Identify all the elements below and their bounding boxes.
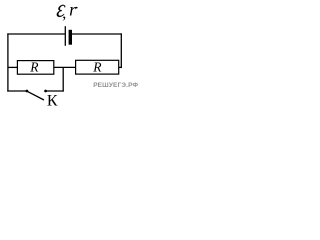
svg-text:r: r bbox=[69, 0, 77, 19]
svg-text:К: К bbox=[47, 93, 58, 110]
switch K left contact dot bbox=[26, 90, 29, 93]
battery G1 thin plate bbox=[64, 26, 66, 46]
battery G1 thick plate bbox=[69, 30, 72, 45]
wire left rail bbox=[7, 33, 9, 91]
svg-text:,: , bbox=[62, 5, 66, 22]
svg-text:РЕШУЕГЭ.РФ: РЕШУЕГЭ.РФ bbox=[93, 82, 138, 89]
wire junction vertical bbox=[62, 67, 64, 91]
resistor R2 box bbox=[76, 60, 119, 74]
label EMF script E bbox=[57, 5, 65, 17]
wire top-right segment bbox=[72, 33, 122, 35]
wire bottom right segment bbox=[46, 90, 64, 92]
wire top-left segment bbox=[7, 33, 65, 35]
wire bottom left segment bbox=[7, 90, 26, 92]
svg-text:R: R bbox=[92, 60, 102, 75]
label r ball terminal bbox=[76, 7, 78, 9]
wire middle left segment bbox=[8, 66, 18, 68]
wire middle right segment bbox=[119, 66, 122, 68]
switch K blade bbox=[27, 91, 44, 100]
wire right rail bbox=[120, 33, 122, 68]
svg-text:R: R bbox=[29, 60, 39, 75]
switch K right contact dot bbox=[44, 90, 47, 93]
resistor R1 box bbox=[17, 61, 53, 75]
wire middle center segment bbox=[54, 66, 76, 68]
